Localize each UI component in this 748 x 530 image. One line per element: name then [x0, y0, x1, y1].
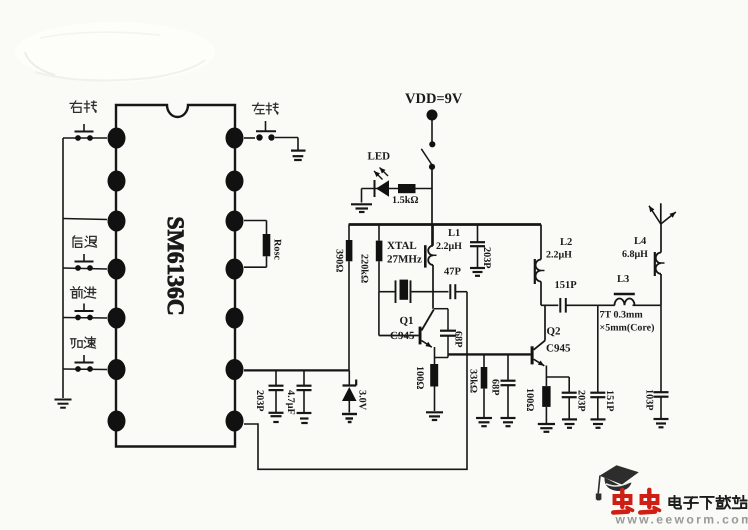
- svg-text:151P: 151P: [555, 280, 578, 291]
- svg-text:L3: L3: [617, 274, 629, 285]
- svg-text:×5mm(Core): ×5mm(Core): [600, 323, 655, 334]
- svg-text:68P: 68P: [453, 331, 464, 347]
- svg-text:Q2: Q2: [547, 326, 562, 338]
- svg-text:203P: 203P: [576, 390, 587, 412]
- svg-text:390Ω: 390Ω: [334, 249, 345, 272]
- svg-text:47P: 47P: [444, 267, 462, 278]
- svg-text:VDD=9V: VDD=9V: [405, 91, 463, 107]
- svg-text:2.2μH: 2.2μH: [546, 250, 572, 261]
- svg-text:33kΩ: 33kΩ: [468, 369, 479, 393]
- svg-text:XTAL: XTAL: [387, 240, 417, 252]
- svg-text:203P: 203P: [481, 247, 492, 269]
- svg-text:151P: 151P: [604, 390, 615, 412]
- svg-text:203P: 203P: [254, 390, 265, 412]
- svg-text:LED: LED: [368, 151, 391, 163]
- svg-text:L2: L2: [560, 237, 572, 248]
- svg-text:1.5kΩ: 1.5kΩ: [392, 195, 419, 206]
- svg-text:220kΩ: 220kΩ: [359, 254, 370, 283]
- svg-text:100Ω: 100Ω: [524, 388, 535, 411]
- svg-text:3.0V: 3.0V: [357, 390, 368, 411]
- svg-text:2.2μH: 2.2μH: [436, 241, 462, 252]
- svg-text:Q1: Q1: [400, 315, 414, 327]
- svg-text:7T 0.3mm: 7T 0.3mm: [600, 310, 644, 321]
- svg-text:www.eeworm.com: www.eeworm.com: [615, 513, 748, 526]
- svg-text:68P: 68P: [490, 379, 501, 395]
- svg-text:C945: C945: [390, 330, 415, 342]
- svg-text:L1: L1: [448, 228, 460, 239]
- svg-text:27MHz: 27MHz: [387, 254, 422, 266]
- svg-text:C945: C945: [546, 343, 571, 355]
- svg-text:103P: 103P: [644, 389, 655, 411]
- svg-text:6.8μH: 6.8μH: [622, 249, 648, 260]
- svg-text:SM6136C: SM6136C: [162, 217, 188, 316]
- svg-text:Rosc: Rosc: [272, 239, 283, 260]
- svg-text:4.7μF: 4.7μF: [285, 390, 296, 415]
- svg-text:L4: L4: [634, 236, 647, 247]
- svg-text:100Ω: 100Ω: [414, 366, 425, 389]
